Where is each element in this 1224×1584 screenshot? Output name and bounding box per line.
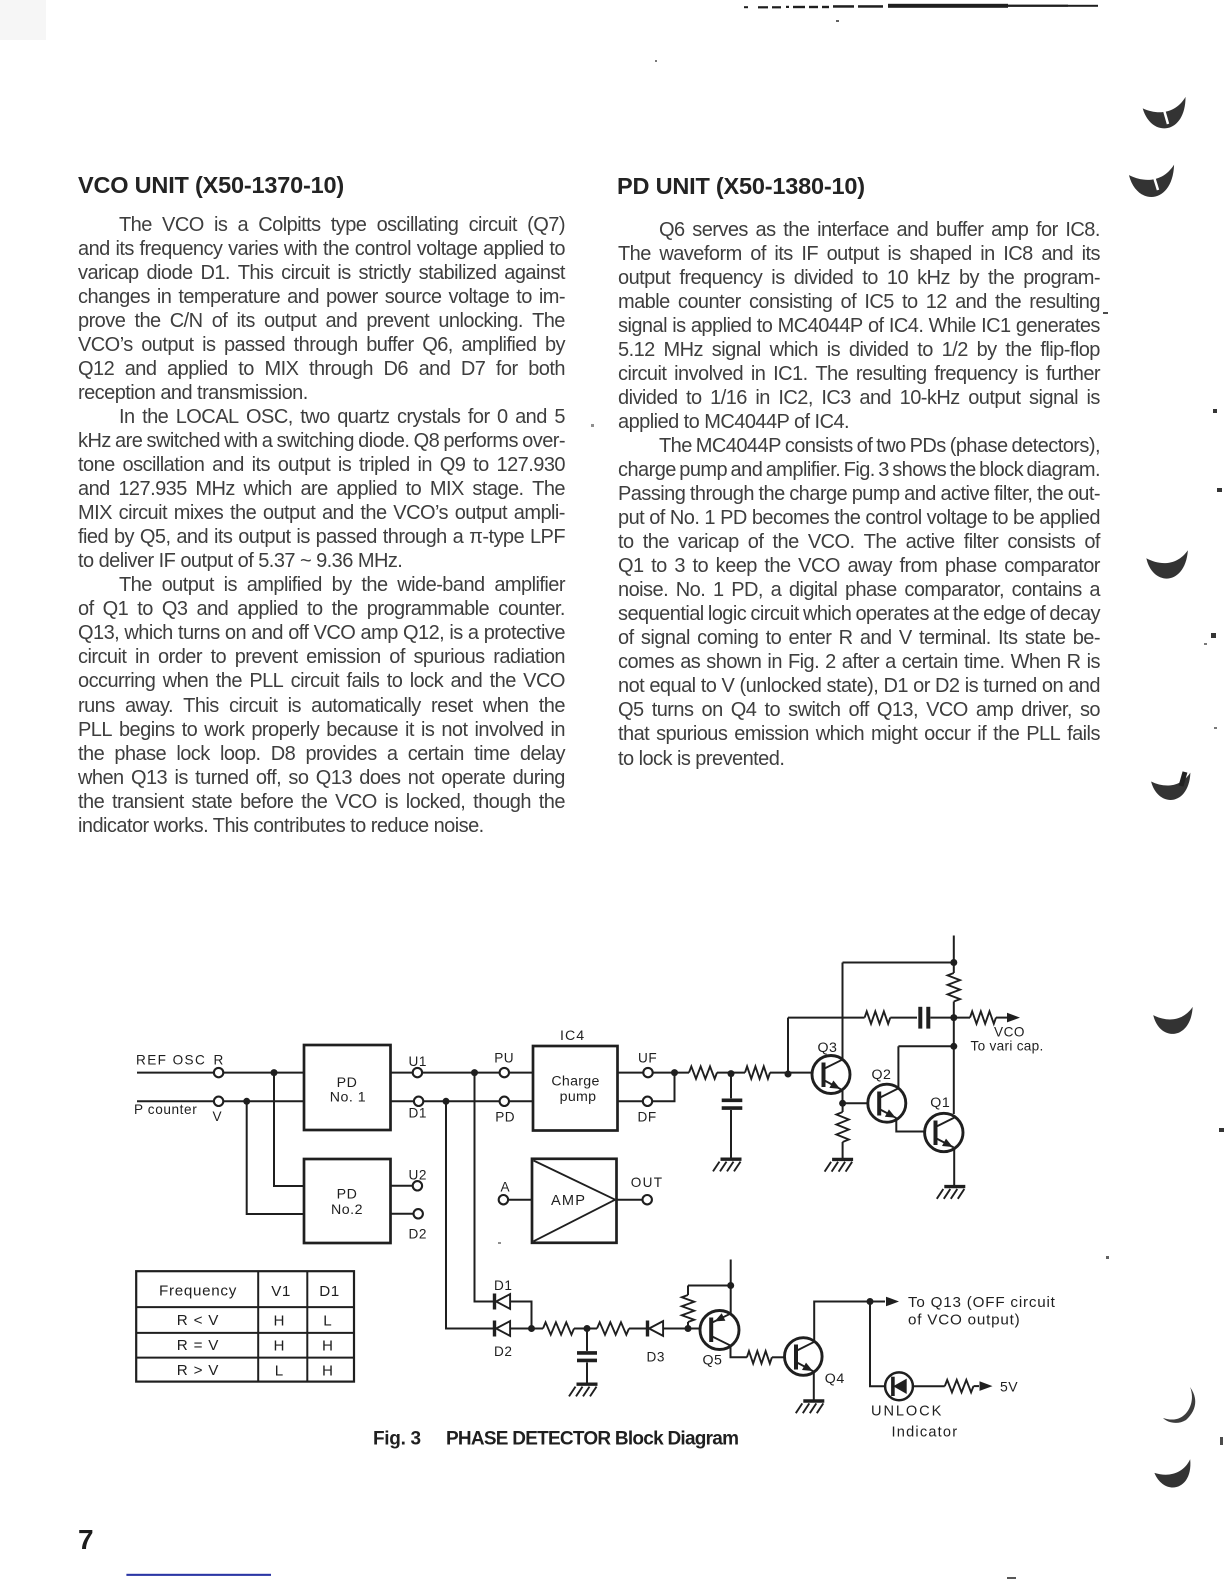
svg-text:Q2: Q2 (872, 1067, 892, 1083)
resistor active filter series 1 (689, 1066, 717, 1078)
svg-text:Q5: Q5 (703, 1352, 723, 1368)
svg-text:R < V: R < V (177, 1312, 219, 1329)
pin A (499, 1180, 532, 1205)
svg-text:D2: D2 (409, 1227, 427, 1242)
svg-text:D1: D1 (409, 1106, 427, 1121)
page number underline (blue pen) (126, 1574, 271, 1576)
svg-text:L: L (275, 1362, 283, 1379)
svg-text:UF: UF (638, 1050, 657, 1065)
label 5V (1000, 1379, 1018, 1395)
pin U2 (391, 1167, 427, 1190)
svg-text:H: H (274, 1312, 285, 1329)
svg-text:UNLOCK: UNLOCK (871, 1404, 943, 1420)
block PD No. 1 (304, 1045, 391, 1130)
table: Frequency / V1 / D1 (136, 1271, 354, 1381)
junction diode outputs (510, 1325, 543, 1332)
arrow to 5V (974, 1381, 993, 1391)
right text column (618, 218, 1100, 771)
wire LED to resistor (913, 1385, 945, 1387)
capacitor lowpass shunt (577, 1329, 597, 1385)
pin D2 (391, 1209, 427, 1241)
wire Q3 collector vertical (842, 963, 844, 1061)
transistor Q3 (812, 1040, 850, 1093)
wire Q5 collector to Q4 base resistor (731, 1346, 747, 1358)
wire V to PD No.1, junction (223, 1098, 304, 1105)
resistor Q5 base pull (682, 1286, 694, 1329)
label VCO To vari cap. (971, 1025, 1044, 1054)
block AMP (532, 1159, 617, 1243)
svg-text:5V: 5V (1000, 1379, 1018, 1395)
wire Q4 emitter to ground (813, 1372, 815, 1401)
wire Q1 emitter to ground (953, 1148, 955, 1187)
svg-text:No.2: No.2 (331, 1202, 363, 1218)
wire Q13 node down to unlock LED (870, 1302, 885, 1387)
wire to Q3 base, junction (770, 1071, 812, 1078)
svg-text:VCO: VCO (994, 1025, 1025, 1040)
wire R-branch down to PD No.2 input (274, 1073, 304, 1186)
diode D1 (494, 1278, 512, 1310)
svg-text:PU: PU (494, 1050, 514, 1065)
svg-text:IC4: IC4 (560, 1028, 585, 1044)
pin PD (495, 1097, 533, 1125)
transistor Q4 (785, 1338, 845, 1387)
svg-text:H: H (322, 1362, 333, 1379)
wire P counter to terminal V (137, 1100, 214, 1102)
terminal R (214, 1068, 223, 1077)
svg-text:V1: V1 (271, 1283, 291, 1300)
svg-text:AMP: AMP (551, 1193, 586, 1209)
wire Q3 emitter to junction (839, 1090, 846, 1107)
scan speck marks (498, 20, 1224, 1579)
diode D3 (647, 1321, 665, 1365)
node V: P counter input (134, 1102, 222, 1124)
resistor lowpass 2 (597, 1322, 629, 1334)
scan smudge 2 (1128, 164, 1177, 199)
svg-text:PD: PD (495, 1110, 515, 1125)
svg-text:U1: U1 (409, 1054, 427, 1069)
wire feedback node up (787, 1018, 789, 1074)
svg-text:Frequency: Frequency (159, 1282, 237, 1299)
svg-text:Charge: Charge (551, 1074, 599, 1090)
resistor collector load (948, 963, 960, 1018)
wire Q3 emitter junction to Q2 base (843, 1102, 869, 1104)
wire to diode D3 (629, 1328, 646, 1330)
svg-text:Fig. 3: Fig. 3 (373, 1429, 421, 1450)
svg-text:D1: D1 (319, 1283, 339, 1300)
scan smudge 1 (top right) (1142, 96, 1190, 131)
scan smudge 5 (1153, 1007, 1195, 1036)
resistor 5V feed (945, 1380, 974, 1392)
capacitor pi-filter shunt (722, 1075, 743, 1159)
pin PU (494, 1050, 533, 1077)
diode D2 (494, 1321, 512, 1360)
wire Q2 emitter to Q1 base (896, 1118, 924, 1131)
svg-text:L: L (323, 1312, 331, 1329)
svg-text:OUT: OUT (631, 1175, 664, 1190)
transistor Q5 (700, 1311, 739, 1369)
ground (lowpass cap) (569, 1384, 598, 1396)
svg-text:Indicator: Indicator (892, 1425, 959, 1441)
capacitor feedback (920, 1007, 954, 1029)
pin U1 (391, 1054, 427, 1078)
svg-text:D2: D2 (494, 1344, 512, 1359)
svg-text:D1: D1 (494, 1278, 512, 1293)
wire supply rail top stub (953, 936, 955, 963)
svg-text:PD: PD (337, 1187, 358, 1203)
diode UNLOCK indicator (885, 1372, 913, 1400)
pin UF (618, 1050, 658, 1077)
svg-text:D3: D3 (647, 1350, 665, 1365)
svg-text:To Q13 (OFF circuit: To Q13 (OFF circuit (908, 1294, 1056, 1311)
svg-text:R > V: R > V (177, 1362, 219, 1379)
svg-text:V: V (213, 1109, 222, 1124)
svg-text:Q1: Q1 (930, 1095, 950, 1111)
resistor VCO output + arrow (954, 1011, 1020, 1023)
node VCO output, junction (950, 1014, 957, 1021)
svg-text:H: H (274, 1337, 285, 1354)
wire Q3 collector rail, junction (843, 959, 958, 966)
wire to shunt node, junction (574, 1325, 597, 1332)
block PD No.2 (304, 1159, 391, 1243)
heading VCO UNIT (78, 172, 344, 199)
ground (Q1 emitter) (937, 1187, 966, 1199)
svg-text:U2: U2 (409, 1167, 427, 1182)
ground (Q3 emitter resistor) (825, 1159, 854, 1171)
wire feedback horizontal (788, 1017, 865, 1019)
pin DF (618, 1097, 657, 1125)
block IC4 Charge pump (533, 1046, 618, 1131)
wire D1 to summing node (510, 1302, 531, 1329)
svg-text:R = V: R = V (177, 1337, 219, 1354)
pin OUT (617, 1175, 664, 1204)
wire Q2 collector branch (898, 1046, 953, 1088)
scan smudge 6 (thin crescent) (1163, 1387, 1195, 1423)
wire Q5 emitter rail, junction (688, 1282, 734, 1289)
node to Q13, junction + arrow (867, 1297, 900, 1307)
scan smudge 3 (1146, 550, 1190, 580)
transistor Q2 (868, 1067, 906, 1122)
wire rail down, junction to Q2 collector (950, 1018, 957, 1114)
wire D1-junction down to diode D2 (446, 1101, 493, 1328)
ground (Q4 emitter) (796, 1401, 825, 1413)
scan smudge 4 (1151, 772, 1193, 802)
svg-text:To vari cap.: To vari cap. (971, 1039, 1044, 1054)
svg-text:PHASE DETECTOR Block Diagram: PHASE DETECTOR Block Diagram (446, 1429, 738, 1450)
svg-text:A: A (501, 1180, 511, 1195)
wire V-branch down to PD No.2 input (247, 1101, 304, 1214)
page number 7 (78, 1524, 94, 1556)
wire REF OSC to terminal R (137, 1072, 214, 1074)
resistor feedback (865, 1011, 891, 1023)
scan smudge 7 (1153, 1459, 1196, 1491)
svg-text:R: R (214, 1052, 224, 1067)
wire Q4 collector up to Q13 node (814, 1302, 870, 1343)
svg-text:No. 1: No. 1 (330, 1090, 366, 1106)
label To Q13 (908, 1294, 1056, 1329)
wire D3 to Q5 base, junction (663, 1325, 700, 1332)
scan artifact: top edge dashed/solid line (744, 4, 1098, 9)
wire supply stub above Q5 (730, 1260, 732, 1315)
wire DF up to UF junction (652, 1073, 674, 1102)
corner shadow (0, 0, 46, 40)
svg-text:DF: DF (638, 1110, 657, 1125)
svg-text:pump: pump (560, 1089, 597, 1105)
wire to Q4 base (772, 1356, 785, 1358)
left text column (78, 213, 565, 838)
svg-text:Q4: Q4 (825, 1371, 845, 1387)
figure caption (373, 1429, 738, 1450)
svg-text:P counter: P counter (134, 1102, 197, 1117)
svg-text:of VCO output): of VCO output) (908, 1311, 1021, 1328)
node R: REF OSC input (136, 1052, 224, 1067)
wire to pi-node, junction (717, 1070, 745, 1077)
wire U1 to PU, junction to lower PDs (422, 1069, 500, 1076)
svg-text:Q3: Q3 (818, 1040, 838, 1056)
resistor Q4 base (747, 1351, 772, 1363)
wire D1 to PD, junction to diode branch (423, 1098, 500, 1105)
wire to feedback capacitor (890, 1017, 917, 1019)
wire PU-junction down to diode D1 (475, 1073, 494, 1302)
ground (pi-filter cap) (713, 1159, 742, 1171)
wire R to PD No.1, junction (223, 1069, 304, 1076)
resistor Q3 emitter (836, 1103, 848, 1159)
label UNLOCK Indicator (871, 1404, 958, 1441)
transistor Q1 (925, 1095, 963, 1152)
IC4 label (560, 1028, 585, 1044)
svg-text:REF OSC: REF OSC (136, 1052, 206, 1067)
resistor lowpass 1 (543, 1322, 574, 1334)
heading PD UNIT (617, 173, 865, 200)
svg-text:H: H (322, 1337, 333, 1354)
wire UF to filter, junction (653, 1069, 689, 1076)
terminal V (214, 1097, 223, 1106)
pin D1 (391, 1097, 427, 1121)
resistor active filter series 2 (745, 1066, 770, 1078)
